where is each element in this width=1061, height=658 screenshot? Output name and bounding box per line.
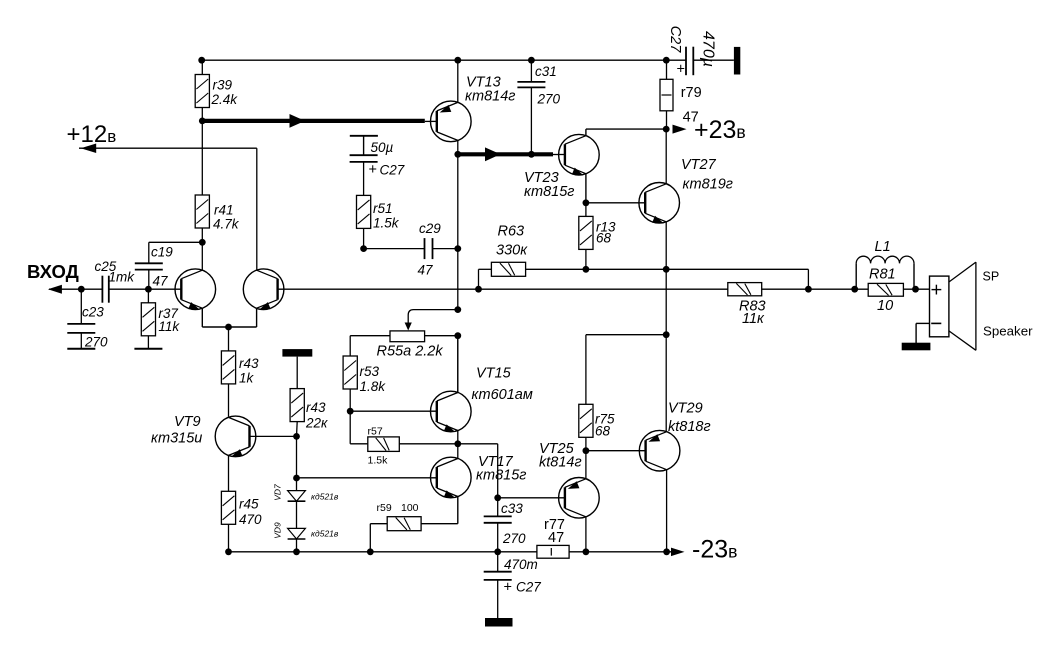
wire VT17 emitter to r59 (457, 497, 459, 524)
ground (bar bottom) (485, 618, 513, 627)
svg-text:R55a 2.2k: R55a 2.2k (377, 344, 444, 360)
wire (349, 411, 351, 444)
svg-text:-23в: -23в (692, 536, 737, 564)
svg-text:кт814г: кт814г (465, 89, 515, 105)
wire (364, 248, 425, 250)
wire VT23 collector (585, 129, 587, 136)
node (494, 494, 501, 501)
wire (762, 288, 869, 290)
node (663, 266, 670, 273)
wire (666, 60, 668, 79)
node (293, 548, 300, 555)
svg-text:470µ: 470µ (700, 31, 717, 67)
wire (369, 524, 371, 552)
wire VT25 base (498, 497, 565, 499)
wire bend down (807, 269, 809, 289)
transistor VT25 kt814g (559, 478, 600, 519)
node (293, 475, 300, 482)
resistor R81 10 (868, 283, 903, 296)
capacitor (102, 276, 108, 303)
arrow +23v (673, 125, 687, 134)
svg-text:r79: r79 (681, 85, 702, 101)
transistor VT23 kt815g (559, 134, 600, 175)
svg-text:470: 470 (239, 512, 262, 527)
svg-text:VD7: VD7 (273, 484, 283, 501)
svg-text:68: 68 (595, 424, 611, 439)
node (225, 324, 232, 331)
wire (201, 121, 203, 195)
wire (80, 333, 82, 349)
potentiometer R55a 2.2k (390, 331, 425, 342)
resistor r43 1k (221, 351, 235, 384)
wire VT13 collector (457, 140, 459, 154)
transistor VT15 (431, 391, 472, 432)
wire (201, 228, 203, 270)
wire (296, 539, 298, 552)
wire (296, 436, 298, 490)
wire trunk (457, 154, 459, 309)
svg-text:50µ: 50µ (371, 140, 394, 155)
wire (296, 357, 298, 389)
wire upper output line (526, 268, 809, 270)
node (912, 286, 919, 293)
wire VT25 collector (585, 517, 587, 552)
inductor L1 (855, 263, 857, 289)
wire VT23 emitter (585, 174, 587, 203)
svg-text:Speaker: Speaker (983, 324, 1033, 339)
wire (363, 228, 365, 248)
svg-text:1k: 1k (239, 371, 255, 386)
wire VT17 base (297, 477, 437, 479)
wire VT29 collector (666, 470, 668, 552)
wire diff emitters join (201, 308, 203, 327)
node (347, 408, 354, 415)
svg-text:470m: 470m (504, 557, 538, 572)
svg-text:11к: 11к (742, 311, 765, 327)
wire (349, 336, 351, 356)
svg-text:r53: r53 (360, 364, 380, 379)
node (583, 199, 590, 206)
wire (201, 108, 203, 121)
wire (296, 501, 298, 528)
wire (497, 580, 499, 618)
transistor VT9 (215, 416, 256, 457)
wire VT25 emitter (585, 451, 587, 479)
transistor diff pair left (175, 269, 216, 310)
svg-text:4.7k: 4.7k (213, 217, 240, 232)
capacitor c19 47 (135, 263, 163, 269)
wire (148, 242, 150, 263)
node (454, 151, 461, 158)
node (198, 57, 205, 64)
svg-text:кд521в: кд521в (311, 492, 339, 502)
wire (228, 327, 230, 351)
node (475, 286, 482, 293)
svg-text:270: 270 (502, 531, 526, 546)
node (454, 57, 461, 64)
svg-text:кт815г: кт815г (476, 468, 526, 484)
resistor r79 47 (660, 79, 673, 111)
speaker SP (930, 262, 976, 350)
capacitor C27 470m (484, 572, 512, 580)
svg-text:r43: r43 (239, 356, 259, 371)
wire (109, 288, 182, 290)
svg-text:1.8k: 1.8k (360, 379, 387, 394)
wire (458, 443, 498, 445)
wire bottom rail left (229, 551, 537, 553)
node (454, 332, 461, 339)
node (293, 433, 300, 440)
capacitor c31 270 (517, 82, 545, 88)
wire thick VT13 base feed (202, 119, 424, 123)
wire VT13 base thin (425, 120, 437, 122)
svg-text:SP: SP (983, 270, 1000, 284)
wire (585, 437, 587, 450)
svg-text:кт819г: кт819г (683, 177, 733, 193)
node (663, 126, 670, 133)
wire (148, 270, 150, 290)
wire (497, 523, 499, 552)
transistor VT13 kt814g (431, 101, 472, 142)
wire (370, 523, 387, 525)
wire (147, 289, 149, 303)
svg-text:r51: r51 (373, 201, 393, 216)
diode VD7 (288, 491, 306, 502)
svg-text:+: + (369, 162, 377, 178)
wire bottom rail right (569, 551, 672, 553)
ground (bar speaker) (902, 343, 931, 351)
wire to diff pair collector (256, 148, 258, 270)
node (367, 548, 374, 555)
wire VT29 base (586, 450, 646, 452)
node (583, 266, 590, 273)
node (454, 440, 461, 447)
svg-text:270: 270 (84, 335, 108, 350)
transistor diff pair right (243, 269, 284, 310)
node (663, 331, 670, 338)
wire (586, 334, 666, 336)
wire (530, 60, 532, 82)
resistor r53 1.8k (343, 356, 357, 389)
wire (665, 335, 667, 432)
arrow -23v (671, 548, 685, 557)
resistor r59 100 (387, 517, 421, 531)
svg-text:c19: c19 (151, 245, 173, 260)
wire (585, 249, 587, 269)
node (199, 118, 206, 125)
wire VT15 collector (457, 336, 459, 393)
svg-text:10: 10 (877, 298, 893, 314)
wire speaker minus to ground (916, 322, 929, 324)
node (528, 151, 535, 158)
svg-text:кт315и: кт315и (151, 431, 202, 447)
svg-text:1mk: 1mk (109, 270, 136, 285)
capacitor C27 470u (686, 47, 693, 75)
resistor r77 47 (537, 545, 569, 558)
svg-text:VT27: VT27 (681, 157, 717, 173)
node (454, 245, 461, 252)
node (583, 548, 590, 555)
resistor r41 4.7k (195, 195, 209, 228)
node (805, 286, 812, 293)
wire (665, 269, 667, 334)
resistor r51 1.5k (357, 195, 371, 228)
node (199, 239, 206, 246)
resistor (491, 262, 525, 276)
svg-text:кт601ам: кт601ам (472, 387, 533, 403)
svg-text:r45: r45 (239, 497, 259, 512)
wire to ground bar (693, 59, 734, 61)
node (663, 57, 670, 64)
svg-text:r57: r57 (368, 426, 383, 438)
svg-text:C27: C27 (667, 26, 683, 54)
node (528, 57, 535, 64)
wire VT27 emitter (665, 222, 667, 269)
wire (228, 524, 230, 552)
svg-text:330к: 330к (496, 243, 528, 259)
wire (497, 498, 499, 517)
wire (296, 422, 299, 437)
transistor VT29 kt818g (639, 430, 680, 471)
svg-text:270: 270 (537, 92, 561, 107)
wire mid line left part (278, 288, 728, 290)
wire (903, 288, 930, 290)
svg-text:кд521в: кд521в (311, 529, 339, 539)
svg-text:r43: r43 (306, 400, 326, 415)
node (663, 548, 670, 555)
wire (530, 87, 532, 154)
ground (top right bar) (734, 47, 740, 75)
wire (433, 248, 458, 250)
wire VT27 base (586, 202, 645, 204)
svg-text:r41: r41 (214, 203, 234, 218)
wire (479, 268, 492, 270)
resistor R83 11k (728, 283, 762, 296)
svg-text:R81: R81 (869, 267, 896, 283)
node (851, 286, 858, 293)
svg-text:c31: c31 (535, 64, 557, 79)
wire (666, 111, 668, 129)
svg-text:ВХОД: ВХОД (27, 261, 79, 282)
wire (585, 203, 587, 217)
svg-text:кт815г: кт815г (524, 184, 574, 200)
transistor VT17 (431, 457, 472, 498)
wire (497, 444, 499, 498)
resistor r13 68 (579, 216, 593, 249)
svg-text:2.4k: 2.4k (211, 92, 239, 107)
svg-text:C27: C27 (516, 580, 541, 595)
svg-text:kt814г: kt814г (539, 455, 582, 471)
svg-text:1.5k: 1.5k (368, 455, 389, 467)
node (78, 286, 85, 293)
arrow on wire (485, 147, 501, 161)
wire top +rail (202, 59, 686, 61)
capacitor (350, 155, 378, 162)
svg-text:+: + (677, 62, 685, 78)
resistor r43 22k (290, 389, 304, 422)
node (225, 548, 232, 555)
svg-text:47: 47 (153, 274, 169, 289)
svg-text:22к: 22к (305, 416, 328, 431)
ground (bar above r43 22k) (282, 349, 312, 357)
wire (228, 384, 230, 417)
svg-text:c29: c29 (419, 221, 441, 236)
wire (228, 455, 230, 491)
svg-text:VD9: VD9 (273, 522, 283, 539)
wire VT15 base (350, 410, 437, 412)
wire (585, 335, 587, 405)
wire input (49, 288, 102, 290)
svg-text:L1: L1 (875, 239, 891, 255)
wiper wire R55a (408, 310, 458, 324)
svg-text:kt818г: kt818г (668, 419, 711, 435)
wire (349, 389, 351, 411)
wire trunk (457, 336, 459, 393)
svg-text:c33: c33 (501, 501, 523, 516)
node (145, 286, 152, 293)
svg-text:r39: r39 (213, 78, 233, 93)
wire VT17 collector (457, 444, 459, 459)
resistor r45 470 (221, 491, 235, 524)
node (454, 306, 461, 313)
ground (line under r37) (134, 348, 162, 350)
wire (497, 552, 499, 572)
svg-text:47: 47 (418, 263, 434, 278)
svg-text:68: 68 (596, 231, 612, 246)
svg-text:VT9: VT9 (174, 414, 201, 430)
wire (80, 289, 82, 324)
wire VT15 emitter (457, 431, 459, 444)
svg-text:r59: r59 (377, 502, 392, 514)
wire (363, 162, 365, 196)
wire (425, 335, 458, 337)
svg-text:47: 47 (548, 530, 564, 546)
arrow on wire (290, 114, 306, 128)
wire +12v (79, 147, 257, 149)
capacitor c23 270 (67, 324, 95, 333)
svg-text:11k: 11k (158, 319, 180, 334)
capacitor C27 50u (bootstrap) (350, 135, 378, 137)
wire VT13 emitter (457, 60, 459, 102)
capacitor c33 270 (484, 516, 512, 522)
wire VT9 base (250, 435, 297, 437)
diode VD9 (288, 528, 306, 539)
transistor VT27 kt819g (639, 183, 680, 224)
capacitor c29 47 (425, 238, 433, 259)
node (360, 245, 367, 252)
node (583, 447, 590, 454)
node (494, 548, 501, 555)
resistor r39 2.4k (195, 75, 209, 108)
svg-text:VT15: VT15 (476, 366, 512, 382)
wire (553, 154, 565, 156)
wire (201, 60, 203, 74)
wire thick VT23 base feed (458, 152, 553, 156)
wire VT27 collector (665, 129, 667, 184)
svg-text:1.5k: 1.5k (373, 216, 400, 231)
wire (147, 336, 149, 349)
wire (350, 335, 390, 337)
svg-text:+23в: +23в (694, 116, 746, 144)
wire (478, 269, 480, 289)
wire (149, 241, 203, 243)
svg-text:R63: R63 (498, 224, 525, 240)
svg-text:c23: c23 (82, 305, 104, 320)
svg-text:+: + (504, 580, 512, 596)
ground (line under c23) (67, 348, 95, 350)
resistor r57 1.5k (368, 437, 400, 452)
resistor r75 68 (579, 404, 593, 437)
svg-text:C27: C27 (380, 163, 405, 178)
resistor r37 11k (141, 303, 155, 336)
svg-text:VT29: VT29 (668, 401, 703, 417)
wire (399, 443, 458, 445)
svg-text:+12в: +12в (67, 121, 117, 148)
svg-text:100: 100 (401, 502, 419, 514)
wire (350, 443, 367, 445)
